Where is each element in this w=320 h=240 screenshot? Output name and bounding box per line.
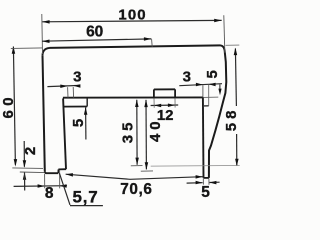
dimension 8: left-pointing arrow [60, 184, 67, 188]
dimension 60 left: bottom arrow [14, 159, 18, 167]
svg-text:5: 5 [204, 70, 221, 78]
dimension 3 right: left extension line [202, 85, 204, 97]
dimension 3 left: line [47, 85, 80, 86]
svg-text:60: 60 [86, 23, 103, 40]
dimension 5 bottom: left-pointing arrow [209, 181, 216, 185]
dimension 5 bottom: right line segment [209, 181, 219, 183]
svg-text:58: 58 [223, 107, 240, 132]
dimension 5 left: line [85, 108, 87, 140]
dimension 70,6: line [66, 174, 203, 179]
dimension 60 left: line [13, 47, 15, 165]
dimension 35: up arrow [135, 100, 139, 108]
svg-text:5,7: 5,7 [73, 187, 99, 206]
dimension 58: top extension line [226, 44, 240, 46]
part outline: plate bottom edge [63, 96, 203, 98]
dimension 35: line [136, 100, 138, 165]
dimension 12: line [151, 104, 179, 107]
part outline: top-left corner [43, 48, 50, 55]
svg-text:35: 35 [120, 119, 137, 144]
dimension 5,7: underline [70, 205, 103, 207]
dimension 100: right arrow [214, 19, 222, 23]
dimension 60 top: right arrow [144, 37, 152, 41]
dimension 12: right extension line [174, 99, 176, 108]
part outline: plate bottom thin continuation [203, 96, 218, 98]
svg-text:60: 60 [0, 93, 17, 119]
part outline: right foot bottom [204, 177, 209, 179]
dimension 12: left extension line [153, 99, 155, 108]
part outline: left rib bottom [63, 106, 87, 108]
dimension 40: line [145, 100, 147, 169]
dimension 3 left: left-pointing arrow [73, 84, 80, 88]
dimension 40: bottom extension line [141, 170, 153, 172]
dimension 3 left: left extension line [67, 87, 69, 97]
dimension 3 left: right-pointing arrow [60, 85, 68, 89]
part outline: left rib right edge [86, 98, 88, 106]
part outline: left edge [43, 55, 45, 171]
dimension 70,6: left arrow [66, 173, 73, 177]
dimension 2: up arrow [23, 172, 27, 180]
part outline: left wall inner edge [63, 98, 66, 169]
dimension 5 bottom: right-pointing arrow [196, 181, 203, 185]
dimension 58: up arrow [234, 48, 238, 56]
dimension 8: left extension line [44, 174, 46, 188]
svg-text:3: 3 [183, 68, 191, 85]
part outline: left foot step [57, 169, 59, 173]
dimension 5 bottom: left extension line [202, 179, 204, 185]
dimension 60 top: left arrow [42, 40, 50, 44]
part outline: bump top edge [154, 88, 175, 90]
dimension 60 left: top arrow [12, 46, 16, 54]
dimension 60 top: line [42, 39, 151, 41]
svg-text:100: 100 [118, 7, 146, 24]
dimension 58: down arrow [235, 159, 239, 167]
dimension 2: upper dim line [23, 141, 25, 167]
dimension 8: right-pointing arrow [38, 184, 45, 188]
dimension 5 bottom: right extension line [208, 179, 210, 185]
svg-text:5: 5 [70, 119, 87, 127]
dimension 58: bottom extension line [151, 165, 240, 168]
dimension 5,7: leader line [59, 173, 70, 205]
dimension 2: top extension line [12, 167, 43, 170]
dimension 100: line [42, 20, 222, 21]
dimension 40: up arrow [144, 100, 148, 108]
dimension 12: left-pointing arrow at left [154, 104, 161, 108]
dimension 35: down arrow [135, 158, 139, 166]
dimension 58: lower line [236, 134, 238, 166]
part outline: top-right corner [221, 45, 225, 52]
dimension 100: left arrow [42, 20, 50, 24]
dimension 2: bottom extension line [20, 171, 45, 174]
dimension 35: bottom extension line [131, 165, 143, 167]
dimension 58: upper line [235, 49, 236, 107]
svg-text:8: 8 [45, 185, 54, 202]
dimension 8: right extension line [59, 170, 61, 188]
part outline: right leg inner edge [202, 98, 205, 178]
svg-text:12: 12 [157, 107, 174, 124]
dimension 5 bottom: left line segment [187, 182, 203, 184]
dimension 2: lower dim line [24, 172, 26, 190]
svg-text:70,6: 70,6 [120, 181, 152, 198]
dimension 60 left: top extension line [11, 47, 42, 50]
dimension 3 left: right extension line [72, 87, 74, 98]
part outline: bump right edge [174, 89, 176, 98]
dimension 5 right: left-pointing arrow [209, 83, 216, 87]
dimension 12: right-pointing arrow at right [168, 104, 175, 108]
part outline: top edge [50, 45, 221, 48]
svg-text:3: 3 [73, 69, 81, 86]
dimension 100: right extension line [224, 15, 225, 52]
dimension 70,6: right arrow [196, 175, 203, 179]
part outline: left foot bottom [45, 171, 58, 173]
part outline: right leg step bottom [203, 105, 209, 107]
dimension 5 left: up arrow [84, 107, 88, 115]
dimension 40: down arrow [145, 162, 149, 170]
svg-text:2: 2 [22, 147, 39, 155]
dimension 2: down arrow [23, 160, 27, 168]
dimension 60 top: right extension line [151, 39, 154, 47]
part outline: left foot ledge [58, 168, 66, 170]
dimension 3 and 5 right: line [179, 84, 222, 86]
dimension 5 right: outer vertical with down arrow [219, 85, 221, 90]
dimension 3 right: right-pointing arrow [196, 83, 203, 87]
part outline: bump left edge [153, 89, 155, 98]
part outline: right outer edge with slant [209, 52, 226, 178]
dimension 100: left extension line [41, 14, 44, 54]
dimension 5 right: middle extension line [208, 85, 210, 106]
dimension 8: line [14, 185, 67, 188]
svg-text:5: 5 [201, 184, 210, 201]
